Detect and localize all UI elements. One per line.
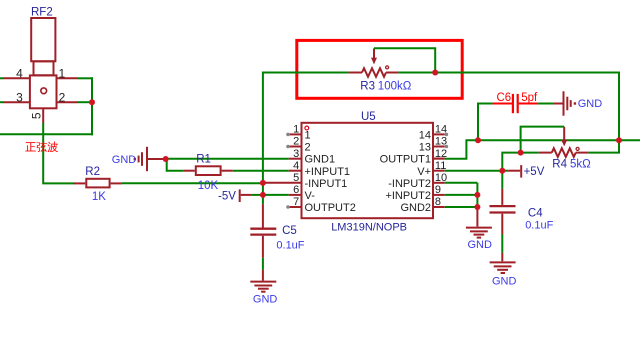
wire RF2 pin5 down [43,123,75,183]
label -5V [218,191,236,203]
R3 wiper terminal circle [386,66,389,69]
svg-text:GND: GND [468,239,493,251]
U5 pin 1 stub (unconnected) [286,133,300,137]
wire -INPUT2 pin 10 [445,182,478,184]
junction GND / R1 branch [163,156,169,162]
wire R3 row left [263,72,349,74]
wire OUTPUT1 row [478,139,640,141]
U5 pin number 13 [435,136,447,148]
wire loop bottom [0,133,93,135]
U5 pin 2 stub (unconnected) [286,145,300,149]
svg-text:2: 2 [305,142,311,154]
wire R4 wiper to left terminal [521,127,565,153]
svg-text:U5: U5 [361,111,376,123]
wire output loop right vertical [618,73,620,141]
GND lead below pin 8 [476,207,478,227]
junction -INPUT1 node [260,180,266,186]
svg-text:R3: R3 [360,81,375,93]
capacitor C4 [490,189,516,235]
U5 pin number 5 [293,172,299,184]
junction RF2 pin2 / loop [89,99,95,105]
svg-text:4: 4 [16,66,23,80]
RF2 pin 1 number [58,66,65,80]
svg-text:V+: V+ [417,166,431,178]
junction R4 wiper / left [518,150,524,156]
label GND below C5 [253,293,278,305]
U5 pin 11 stub [434,170,445,172]
wire GND2 pin 8 [445,206,478,208]
U5 pin label GND2 [400,202,431,214]
R1 left lead [184,170,195,172]
ground below pins 8-10 [466,228,492,238]
svg-text:-INPUT2: -INPUT2 [388,178,431,190]
R2 right lead [111,182,122,184]
wire RF2 pin1 to loop [78,77,94,79]
wire RF2 pin2 to loop [78,101,93,103]
svg-text:5: 5 [293,172,299,184]
R4 wiper terminal circle [576,147,579,150]
U5 pin label +INPUT1 [305,166,351,178]
power -5V symbol [240,189,252,202]
svg-text:13: 13 [419,142,431,154]
svg-text:5pf: 5pf [521,92,538,104]
R2 left lead [74,182,85,184]
wire C6 to GND [538,103,562,105]
svg-text:OUTPUT1: OUTPUT1 [380,154,431,166]
junction GND2 node [474,204,480,210]
U5 pin 14 stub (unconnected) [434,133,448,137]
ground GND signal symbol near R1 [134,147,166,171]
RF2 pin 2 lead [57,101,78,103]
RF2 pin 1 lead [57,77,78,79]
U5 pin number 4 [293,160,299,172]
svg-text:C4: C4 [528,208,543,220]
wire V+ riser to R4 [502,153,538,171]
svg-text:1: 1 [293,124,299,136]
label R3 [360,81,375,93]
R1 right lead [222,170,233,172]
junction V- node [260,192,266,198]
svg-text:3: 3 [293,148,299,160]
svg-text:GND2: GND2 [400,202,431,214]
wire C4 to GND [501,235,503,262]
label C5 value 0.1uF [276,240,304,252]
resistor R1 [196,166,221,175]
potentiometer R3 zigzag [362,68,386,77]
svg-text:+5V: +5V [524,166,545,178]
RF2 pin 5 lead [42,108,44,123]
svg-text:10K: 10K [198,180,219,192]
U5 pin label 13 [419,142,431,154]
svg-text:RF2: RF2 [31,6,53,18]
svg-text:C6: C6 [497,92,512,104]
svg-text:100kΩ: 100kΩ [378,81,412,93]
svg-text:GND1: GND1 [305,154,336,166]
wire +INPUT2 pin 9 [445,194,478,196]
wire R3 left vertical net [262,72,264,205]
U5 pin label V- [305,190,316,202]
label R4 value 5kΩ [570,159,591,171]
label U5 [361,111,376,123]
U5 pin label V+ [417,166,431,178]
svg-text:7: 7 [293,196,299,208]
U5 pin number 1 [293,124,299,136]
svg-text:9: 9 [435,184,441,196]
R4 wiper arrow [561,127,567,147]
junction V+ node [499,168,505,174]
U5 pin label 2 [305,142,311,154]
junction +INPUT2 node [474,192,480,198]
wire GND to U5 pin3 GND1 [166,158,301,160]
svg-text:0.1uF: 0.1uF [276,240,304,252]
svg-text:OUTPUT2: OUTPUT2 [305,202,356,214]
label 10K [198,180,219,192]
resistor R2 [86,179,109,188]
label GND net near R1 [112,154,137,166]
highlight box around R3 [297,40,462,98]
wire R4 right drop [588,140,619,152]
svg-text:R4: R4 [552,159,567,171]
R3 right lead [386,72,398,74]
svg-text:11: 11 [435,160,446,172]
U5 pin label +INPUT2 [385,190,431,202]
svg-text:5: 5 [29,112,43,119]
U5 pin number 8 [435,196,441,208]
potentiometer R4 zigzag [552,148,576,157]
U5 pin number 9 [435,184,441,196]
svg-text:-INPUT1: -INPUT1 [305,178,348,190]
svg-text:14: 14 [419,130,431,142]
svg-text:3: 3 [16,90,23,104]
svg-text:14: 14 [435,124,447,136]
U5 pin number 11 [435,160,446,172]
RF2 pin 2 number [59,90,66,104]
svg-text:GND: GND [578,98,603,110]
U5 pin label -INPUT2 [388,178,431,190]
power +5V symbol [502,165,521,178]
U5 pin label 1 [305,130,311,142]
svg-text:+INPUT2: +INPUT2 [385,190,431,202]
U5 pin 8 stub [434,206,445,208]
svg-text:GND: GND [112,154,137,166]
op-amp comparator U5 body [302,123,434,218]
U5 pin1 orientation dot [305,126,309,130]
svg-text:V-: V- [305,190,316,202]
svg-text:5kΩ: 5kΩ [570,159,591,171]
RF2 pin 4 lead [0,77,30,79]
R3 left lead [349,72,362,74]
connector RF2 [30,18,57,108]
U5 pin label OUTPUT1 [380,154,431,166]
U5 pin number 7 [293,196,299,208]
U5 pin label OUTPUT2 [305,202,356,214]
U5 pin number 12 [435,148,447,160]
label R3 value 100kΩ [378,81,412,93]
svg-text:13: 13 [435,136,447,148]
junction R3 wiper / output [432,70,438,76]
U5 pin label 14 [419,130,431,142]
R4 left lead [539,152,552,154]
wire C5 to GND [262,258,264,281]
svg-text:8: 8 [435,196,441,208]
ground below C4 [490,262,516,273]
label R1 [196,153,211,165]
junction OUTPUT1 / C6 branch [475,137,481,143]
R4 right lead [576,152,589,154]
label R4 [552,159,567,171]
U5 pin number 6 [293,184,299,196]
wire loop right vertical [91,77,93,135]
U5 pin label -INPUT1 [305,178,348,190]
label LM319N/NOPB [331,221,407,233]
U5 pin 12 stub [434,158,445,160]
svg-text:1K: 1K [92,191,106,203]
U5 pin 10 stub [434,182,445,184]
wire C4 branch [501,171,503,189]
wire R1 to +INPUT1 [233,170,301,172]
ground GND signal symbol right of C6 [564,91,577,115]
svg-text:C5: C5 [282,225,297,237]
svg-text:6: 6 [293,184,299,196]
wire V- stub [263,194,301,196]
RF2 pin 3 lead [0,101,30,103]
wire GND branch to R1 [167,159,184,171]
svg-text:2: 2 [293,136,299,148]
wire -INPUT1 stub [263,182,301,184]
svg-text:1: 1 [305,130,311,142]
junction output / R4 right [616,137,622,143]
R3 wiper arrow [371,48,377,64]
label C6 [497,92,512,104]
wire pins 10-8 vertical drop [476,183,478,207]
wire R3 wiper to right terminal [374,48,435,72]
capacitor C6 (highlighted) [493,94,539,113]
label 正弦波 (sine wave) [25,142,58,153]
RF2 pin 4 number [16,66,23,80]
svg-text:R2: R2 [85,166,100,178]
label GND below C4 [492,276,517,288]
svg-text:R1: R1 [196,153,211,165]
wire R3 right to output loop [398,72,620,74]
U5 pin 9 stub [434,194,445,196]
U5 pin label GND1 [305,154,336,166]
label 1K [92,191,106,203]
svg-text:-5V: -5V [218,191,236,203]
svg-text:GND: GND [253,293,278,305]
label GND below pins 8-10 [468,239,493,251]
label RF2 [31,6,53,18]
wire -5V to V- [251,194,263,196]
svg-text:+INPUT1: +INPUT1 [305,166,351,178]
U5 pin number 2 [293,136,299,148]
label R2 [85,166,100,178]
svg-text:4: 4 [293,160,299,172]
U5 pin 7 stub (unconnected) [286,205,300,209]
svg-text:1: 1 [58,66,65,80]
svg-text:0.1uF: 0.1uF [525,219,553,231]
U5 pin number 14 [435,124,447,136]
svg-text:2: 2 [59,90,66,104]
label C5 [282,225,297,237]
svg-text:LM319N/NOPB: LM319N/NOPB [331,221,407,233]
U5 pin number 10 [435,172,447,184]
RF2 pin 3 number [16,90,23,104]
label C6 value 5pf [521,92,538,104]
wire R2 to -INPUT1 [122,182,263,184]
wire V+ stub pin 11 [445,170,503,172]
label +5V [524,166,545,178]
U5 pin number 3 [293,148,299,160]
capacitor C5 [250,204,276,258]
ground below C5 [250,282,276,292]
U5 pin 13 stub (unconnected) [434,145,448,149]
label GND right of C6 [578,98,603,110]
RF2 pin 5 number [29,112,43,119]
wire C6 branch [478,104,493,142]
wire OUTPUT1 riser from pin 12 [434,140,478,159]
label C4 value 0.1uF [525,219,553,231]
label C4 [528,208,543,220]
svg-text:GND: GND [492,276,517,288]
